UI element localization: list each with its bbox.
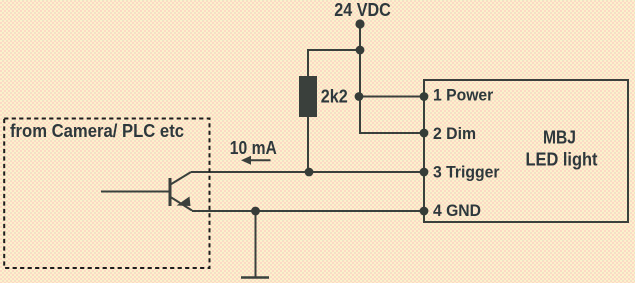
svg-text:4 GND: 4 GND (433, 202, 481, 220)
svg-text:2 Dim: 2 Dim (433, 125, 476, 143)
svg-text:LED light: LED light (526, 150, 598, 170)
svg-text:2k2: 2k2 (321, 86, 348, 106)
svg-text:1 Power: 1 Power (433, 87, 494, 105)
svg-text:3 Trigger: 3 Trigger (433, 164, 500, 182)
svg-text:10 mA: 10 mA (230, 138, 277, 158)
svg-text:24 VDC: 24 VDC (334, 0, 391, 20)
svg-text:MBJ: MBJ (543, 127, 576, 147)
svg-text:from Camera/ PLC etc: from Camera/ PLC etc (10, 121, 184, 141)
